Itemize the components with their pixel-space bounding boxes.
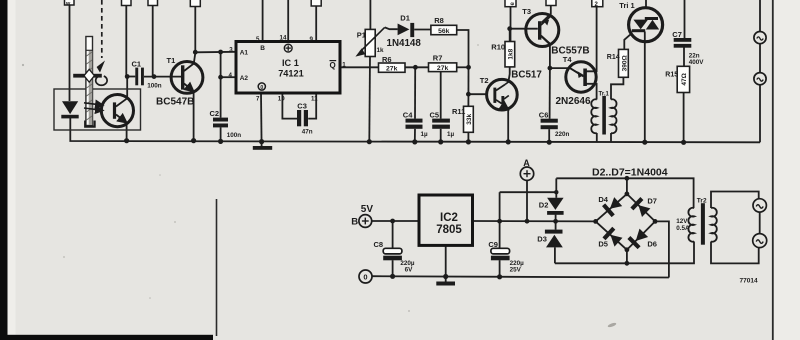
svg-text:A2: A2 bbox=[240, 75, 249, 82]
svg-text:2N2646: 2N2646 bbox=[556, 96, 591, 107]
svg-text:56k: 56k bbox=[438, 28, 450, 35]
svg-text:D2..D7=1N4004: D2..D7=1N4004 bbox=[592, 167, 668, 179]
svg-text:R7: R7 bbox=[433, 53, 443, 62]
svg-text:D4: D4 bbox=[598, 195, 608, 204]
svg-text:R10: R10 bbox=[491, 42, 505, 51]
svg-text:3: 3 bbox=[229, 47, 233, 54]
svg-text:100n: 100n bbox=[147, 83, 162, 90]
svg-text:T2: T2 bbox=[480, 76, 489, 85]
svg-text:74121: 74121 bbox=[278, 69, 304, 79]
svg-text:C9: C9 bbox=[488, 240, 498, 249]
svg-text:R15: R15 bbox=[665, 71, 678, 78]
svg-text:C7: C7 bbox=[672, 30, 682, 39]
svg-text:11: 11 bbox=[311, 96, 318, 103]
svg-text:C3: C3 bbox=[297, 102, 307, 111]
svg-text:47Ω: 47Ω bbox=[681, 73, 688, 85]
svg-text:10: 10 bbox=[278, 96, 285, 103]
svg-text:4: 4 bbox=[229, 72, 233, 79]
svg-text:220n: 220n bbox=[555, 131, 570, 138]
svg-text:D3: D3 bbox=[537, 235, 547, 244]
svg-text:33k: 33k bbox=[466, 113, 473, 124]
svg-text:D2: D2 bbox=[539, 201, 549, 210]
svg-text:6V: 6V bbox=[405, 267, 414, 274]
svg-text:D7: D7 bbox=[647, 197, 657, 206]
svg-text:IC 1: IC 1 bbox=[282, 58, 299, 68]
svg-text:T1: T1 bbox=[167, 56, 176, 65]
svg-text:B: B bbox=[260, 45, 265, 52]
svg-text:47n: 47n bbox=[302, 129, 313, 136]
svg-text:R6: R6 bbox=[382, 55, 392, 64]
svg-text:Q: Q bbox=[330, 61, 336, 70]
svg-text:P1: P1 bbox=[357, 31, 366, 40]
svg-text:T3: T3 bbox=[522, 7, 531, 16]
svg-text:390Ω: 390Ω bbox=[621, 55, 628, 71]
svg-text:BC547B: BC547B bbox=[156, 96, 194, 107]
svg-text:R14: R14 bbox=[607, 54, 620, 61]
svg-text:400V: 400V bbox=[689, 59, 705, 66]
svg-text:27k: 27k bbox=[386, 65, 398, 72]
svg-text:BC517: BC517 bbox=[511, 69, 542, 80]
svg-text:C5: C5 bbox=[430, 111, 440, 120]
svg-text:100n: 100n bbox=[227, 132, 242, 139]
svg-text:R11: R11 bbox=[452, 107, 465, 116]
svg-text:Tr2: Tr2 bbox=[697, 198, 707, 205]
svg-text:A1: A1 bbox=[240, 50, 249, 57]
svg-text:C2: C2 bbox=[210, 109, 220, 118]
svg-text:0: 0 bbox=[363, 272, 367, 281]
svg-text:T4: T4 bbox=[563, 55, 573, 64]
svg-text:7805: 7805 bbox=[436, 224, 462, 236]
svg-text:25V: 25V bbox=[510, 267, 522, 274]
svg-text:C1: C1 bbox=[132, 60, 142, 69]
svg-text:1k8: 1k8 bbox=[507, 48, 514, 59]
svg-text:1µ: 1µ bbox=[421, 131, 429, 138]
svg-text:Tr.1: Tr.1 bbox=[599, 92, 610, 98]
svg-text:7: 7 bbox=[256, 96, 260, 103]
svg-text:D1: D1 bbox=[400, 14, 410, 23]
svg-text:R8: R8 bbox=[434, 16, 444, 25]
svg-text:77014: 77014 bbox=[740, 277, 758, 284]
svg-text:C8: C8 bbox=[374, 240, 384, 249]
svg-text:9: 9 bbox=[310, 36, 314, 43]
svg-text:5V: 5V bbox=[361, 204, 374, 215]
svg-text:14: 14 bbox=[280, 35, 287, 42]
svg-text:1k: 1k bbox=[377, 47, 385, 54]
svg-text:A: A bbox=[523, 158, 530, 168]
svg-text:D5: D5 bbox=[598, 239, 608, 248]
svg-text:D6: D6 bbox=[647, 239, 657, 248]
svg-text:IC2: IC2 bbox=[440, 212, 458, 224]
svg-text:B: B bbox=[351, 216, 358, 227]
svg-text:Tri 1: Tri 1 bbox=[619, 1, 634, 10]
svg-text:0.5A: 0.5A bbox=[676, 225, 690, 232]
svg-text:1N4148: 1N4148 bbox=[387, 38, 422, 49]
svg-text:C6: C6 bbox=[539, 110, 549, 119]
svg-text:0: 0 bbox=[260, 85, 263, 91]
svg-text:C4: C4 bbox=[403, 111, 413, 120]
svg-text:5: 5 bbox=[256, 36, 260, 43]
svg-text:1: 1 bbox=[342, 62, 346, 69]
svg-text:27k: 27k bbox=[437, 65, 449, 72]
svg-text:w: w bbox=[65, 1, 71, 7]
svg-text:1µ: 1µ bbox=[447, 131, 455, 138]
